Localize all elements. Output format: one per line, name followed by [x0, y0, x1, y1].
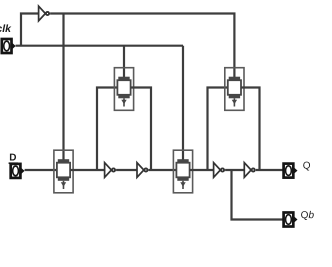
svg-text:clk: clk — [0, 23, 12, 35]
port D (input) — [11, 164, 25, 178]
svg-text:Q: Q — [303, 161, 311, 172]
wire: U3 to U4 — [225, 169, 244, 171]
wire: slave feedback loop left side — [208, 88, 228, 171]
wire: Qb tap down and across — [232, 170, 284, 220]
wire: U1 to U2 — [116, 169, 137, 171]
wire: gate drop to N2 from clock rail end — [182, 46, 184, 161]
inverter U5 (clock inverter) — [39, 6, 50, 21]
transistor N2 (slave input pass gate) — [173, 150, 192, 193]
wire: inverted clock rail — [50, 14, 234, 79]
wire: master feedback loop right side — [131, 88, 151, 171]
wire: clock rail — [16, 45, 183, 47]
wire: master feedback loop left side — [97, 88, 117, 171]
transistor N1 (master input pass gate) — [54, 150, 73, 193]
port Qb (output) — [284, 213, 298, 227]
wire: slave feedback loop right side — [241, 88, 260, 171]
svg-text:D: D — [9, 153, 16, 164]
wire: U4 output to Q port — [256, 169, 283, 171]
wire: U2 output to N2 — [149, 169, 177, 171]
wire: gate drop to N1 from inverted clock rail — [62, 14, 64, 162]
transistor N3 (master feedback pass gate) — [114, 68, 133, 111]
inverter U3 — [214, 163, 225, 178]
svg-text:Qb: Qb — [301, 210, 315, 221]
wire: N2 to inverter U3 — [190, 169, 214, 171]
transistor N4 (slave feedback pass gate) — [225, 68, 244, 111]
wire: D port to N1 — [25, 169, 57, 171]
inverter U2 — [137, 163, 148, 178]
wire: N1 to inverter U1 — [70, 169, 105, 171]
inverter U4 — [244, 163, 255, 178]
inverter U1 — [105, 163, 116, 178]
wire: D label underline — [9, 162, 18, 164]
wire: top rail input segment (riser to inverter) — [21, 14, 39, 46]
wire: gate drop to N3 from clock rail — [123, 46, 125, 78]
port Q (output) — [284, 164, 298, 178]
port clk (input) — [2, 39, 16, 53]
